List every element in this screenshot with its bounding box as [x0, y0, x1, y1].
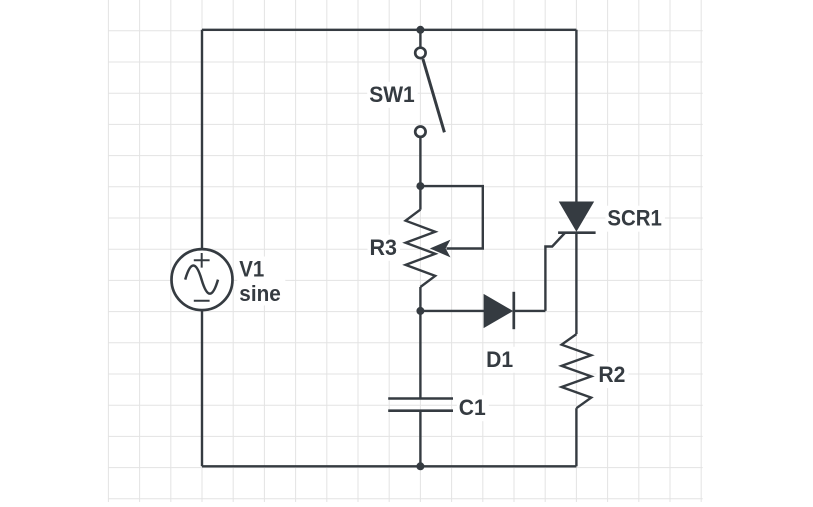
junction node: R3 / D1 / C1 [416, 307, 424, 315]
voltage source V1 (sine) [172, 249, 233, 310]
background grid (decorative) [108, 0, 702, 502]
svg-text:R3: R3 [370, 235, 398, 260]
capacitor C1 plates [388, 399, 453, 411]
junction node: SW1 / R3 / wiper [416, 182, 424, 190]
resistor R2 zigzag [562, 334, 592, 408]
diode D1 triangle [484, 295, 512, 327]
svg-text:V1: V1 [239, 256, 264, 281]
label C1 [457, 395, 489, 421]
wire SCR1 cathode to R2 [575, 233, 577, 334]
wire top rail [202, 29, 576, 31]
resistor R3 (potentiometer body) leads [419, 186, 421, 311]
wire D1 cathode to gate riser [514, 310, 546, 312]
label SCR1 [605, 206, 665, 232]
SCR1 cathode bar [558, 231, 596, 234]
wire left rail lower (V1 bottom lead) [201, 311, 203, 467]
wire left rail upper (V1 top lead) [201, 30, 203, 249]
wire R3 junction to D1 anode [420, 310, 484, 312]
junction node: top rail / SW1 [416, 26, 424, 34]
R3 wiper arrowhead [432, 241, 449, 256]
label SW1 [367, 82, 418, 108]
wire R3 wiper loop [420, 186, 482, 248]
switch SW1 stub wires [419, 30, 421, 186]
resistor R3 zigzag [406, 210, 436, 287]
label R3 [368, 235, 401, 261]
svg-text:R2: R2 [598, 362, 625, 387]
label R2 [596, 362, 628, 388]
wire right rail upper (SCR1 anode lead) [575, 30, 577, 202]
svg-text:C1: C1 [459, 395, 486, 420]
diode D1 cathode bar [512, 292, 515, 329]
capacitor C1 leads [419, 311, 421, 466]
switch SW1 contacts and blade [415, 48, 444, 137]
wire R2 to bottom rail [575, 408, 577, 466]
label V1 sine [237, 256, 285, 306]
svg-text:D1: D1 [486, 347, 513, 372]
label D1 [484, 347, 516, 373]
wire SCR1 gate down to D1 line [545, 233, 564, 311]
svg-text:sine: sine [239, 281, 280, 306]
svg-text:SW1: SW1 [369, 82, 415, 107]
wire bottom rail [202, 465, 576, 467]
SCR1 thyristor triangle [560, 202, 594, 231]
svg-text:SCR1: SCR1 [607, 206, 662, 231]
junction node: C1 / bottom rail [416, 462, 424, 470]
